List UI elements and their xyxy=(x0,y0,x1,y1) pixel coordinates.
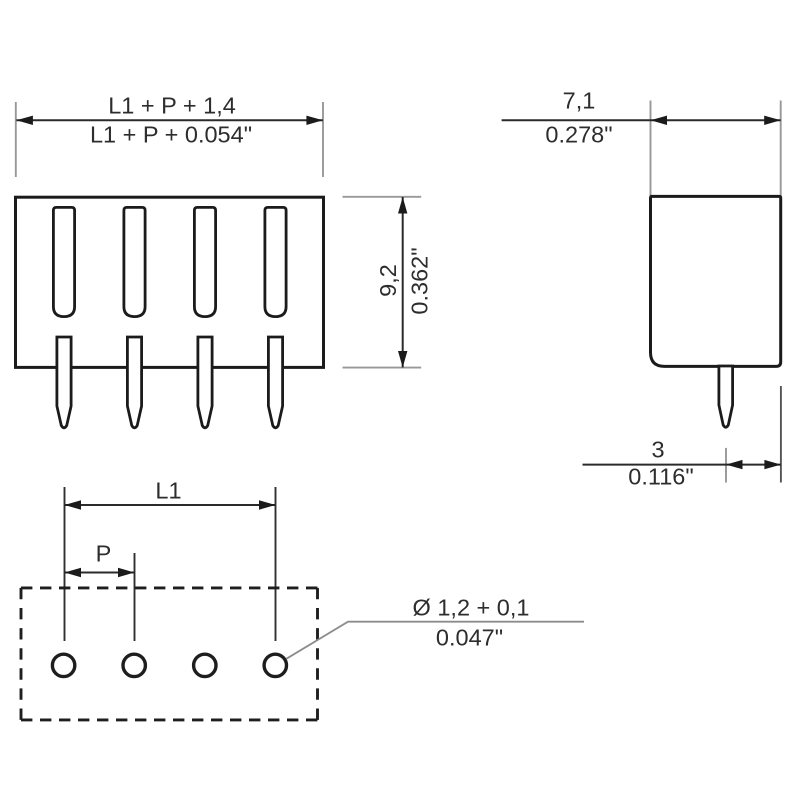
arrowhead right (L1) xyxy=(259,500,276,509)
dimension line 3 with leader xyxy=(583,464,781,466)
leader line to drill hole 4 xyxy=(286,622,584,659)
slot 2 xyxy=(124,207,145,316)
arrowhead left (3) xyxy=(726,460,743,469)
svg-text:7,1: 7,1 xyxy=(563,88,596,114)
svg-text:0.047": 0.047" xyxy=(436,624,503,650)
dimension line L1 xyxy=(65,504,276,506)
slot 1 xyxy=(53,207,74,316)
dimension line 9,2 xyxy=(402,197,404,368)
extension line top of height dimension xyxy=(343,196,422,198)
side view housing body xyxy=(651,196,781,366)
arrowhead up xyxy=(398,197,407,214)
slot 4 xyxy=(265,207,286,316)
extension line right of P dimension xyxy=(134,553,136,641)
dimension line P xyxy=(65,572,135,574)
extension line right of depth dimension (side view) xyxy=(780,101,782,197)
extension line left of depth dimension (side view) xyxy=(650,101,652,197)
pin (side view) xyxy=(719,366,733,427)
footprint outline (dashed) bottom edge xyxy=(21,718,318,721)
drill hole 1 xyxy=(52,654,74,676)
pin 4 (front view) xyxy=(268,337,282,428)
arrowhead left (7,1) xyxy=(651,116,668,125)
extension line pin centre (3 dimension) xyxy=(725,448,727,483)
arrowhead right (3) xyxy=(764,460,781,469)
arrowhead down xyxy=(398,351,407,368)
extension line right of width dimension (front view) xyxy=(322,102,324,177)
dimension line 7,1 with leader xyxy=(502,119,781,121)
svg-text:Ø 1,2 + 0,1: Ø 1,2 + 0,1 xyxy=(413,594,530,620)
svg-text:3: 3 xyxy=(651,437,664,463)
pin 2 (front view) xyxy=(127,337,141,428)
arrowhead right (7,1) xyxy=(764,116,781,125)
svg-text:0.362": 0.362" xyxy=(407,247,433,314)
svg-text:0.116": 0.116" xyxy=(628,463,693,489)
svg-text:9,2: 9,2 xyxy=(375,264,401,297)
extension line right of L1 dimension xyxy=(275,487,277,641)
front view housing body xyxy=(16,197,324,367)
arrowhead left (P) xyxy=(65,568,82,577)
dimension line L1+P+1,4 xyxy=(16,119,323,121)
arrowhead right xyxy=(306,116,323,125)
arrowhead left xyxy=(16,116,33,125)
svg-text:L1 + P + 0.054": L1 + P + 0.054" xyxy=(90,121,252,147)
drill hole 3 xyxy=(194,654,216,676)
pin 3 (front view) xyxy=(198,337,212,428)
svg-text:P: P xyxy=(96,541,112,567)
drill hole 2 xyxy=(123,654,145,676)
footprint outline (dashed) left edge xyxy=(20,588,23,720)
arrowhead left (L1) xyxy=(65,500,82,509)
pin 1 (front view) xyxy=(57,337,71,428)
extension line left of L1 dimension xyxy=(64,487,66,641)
footprint outline (dashed) top edge xyxy=(21,586,318,589)
extension line body edge (3 dimension) xyxy=(780,386,782,483)
arrowhead right (P) xyxy=(118,568,135,577)
drill hole 4 xyxy=(264,654,286,676)
svg-text:L1: L1 xyxy=(155,478,181,504)
extension line left of width dimension (front view) xyxy=(15,102,17,177)
svg-text:L1 + P + 1,4: L1 + P + 1,4 xyxy=(108,92,236,118)
footprint outline (dashed) right edge xyxy=(316,588,319,720)
extension line bottom of height dimension xyxy=(343,367,422,369)
svg-text:0.278": 0.278" xyxy=(545,122,612,148)
slot 3 xyxy=(194,207,215,316)
